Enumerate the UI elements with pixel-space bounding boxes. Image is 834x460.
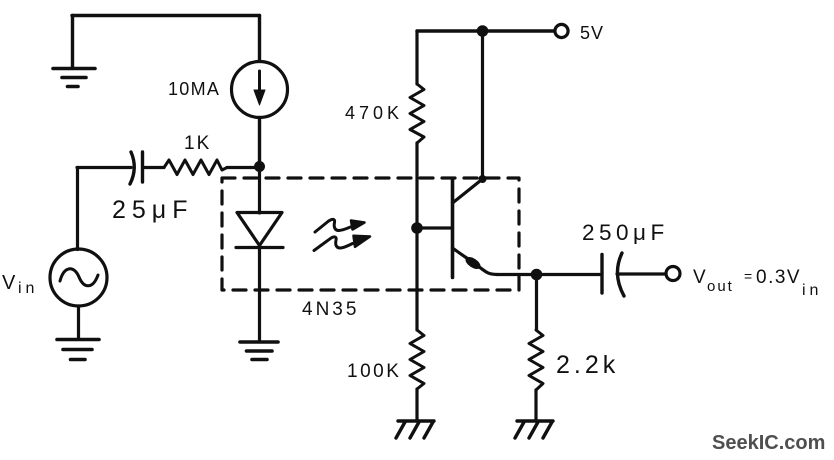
node junction (1K / LED / current source) (254, 161, 265, 172)
wire capacitor to Vin branch (77, 166, 131, 169)
light arrow 1 (315, 219, 365, 232)
dashed box 4N35 (222, 178, 519, 290)
svg-text:0.3V: 0.3V (756, 267, 801, 288)
svg-text:SeekIC.com: SeekIC.com (712, 432, 825, 454)
resistor 2.2k (vertical zigzag) (529, 330, 543, 390)
resistor 1K (horizontal zigzag) (164, 160, 227, 175)
ground (100K, hatched) (396, 421, 434, 438)
wire node to capacitor 250uF (537, 273, 601, 276)
wire 100K to ground (415, 389, 418, 420)
svg-text:100K: 100K (347, 361, 401, 382)
source Vin (sine) (50, 249, 107, 306)
wire from top into current source (258, 16, 261, 62)
terminal Vout (666, 267, 680, 281)
wire current source to node (258, 118, 261, 167)
ground (Vin) (57, 340, 99, 360)
wire 2.2k to ground (534, 390, 537, 420)
wire node to 2.2k (535, 275, 538, 331)
wire 1K to node (227, 166, 260, 169)
junction blob (collector meets box edge) (479, 175, 487, 183)
svg-text:250μF: 250μF (582, 220, 669, 245)
node junction (5V / collector) (477, 25, 489, 37)
wire capacitor to resistor 1K (144, 166, 165, 169)
label Vout = 0.3Vin (693, 267, 822, 299)
svg-text:4N35: 4N35 (302, 299, 359, 320)
svg-text:2.2k: 2.2k (556, 351, 619, 379)
light arrow 2 (314, 236, 370, 251)
svg-text:=: = (744, 268, 752, 284)
wire top-left horizontal (ground to current source) (72, 14, 260, 17)
resistor 100K (vertical zigzag) (410, 330, 424, 389)
terminal 5V (555, 24, 568, 37)
LED (diode of 4N35) (236, 213, 283, 248)
transistor (4N35 phototransistor) (453, 179, 498, 278)
svg-text:5V: 5V (580, 23, 604, 43)
node junction (emitter / 2.2k / 250uF) (531, 269, 543, 281)
svg-text:out: out (707, 278, 734, 295)
svg-text:1K: 1K (184, 133, 211, 154)
svg-text:V: V (693, 267, 706, 288)
capacitor 25uF (130, 152, 143, 184)
wire Vin bottom lead (77, 306, 80, 339)
wire capacitor to Vout terminal (617, 272, 666, 275)
node junction (base divider) (411, 222, 423, 234)
capacitor 250uF (602, 253, 624, 296)
svg-text:470K: 470K (345, 103, 403, 123)
wire 5V rail (417, 29, 555, 32)
svg-text:25μF: 25μF (112, 196, 193, 224)
wire collector to 5V node (481, 31, 484, 179)
resistor 470K (vertical zigzag) (410, 84, 424, 143)
wire Vin top lead (76, 168, 79, 250)
wire emitter to output node (497, 273, 537, 276)
ground (2.2k, hatched) (515, 421, 553, 438)
wire node to LED anode (258, 167, 261, 214)
wire 5V rail to 470K (415, 31, 418, 84)
ground (LED cathode) (240, 342, 278, 360)
wire top-left vertical drop to ground (71, 16, 74, 68)
wire LED cathode to ground (258, 248, 261, 342)
svg-text:in: in (802, 282, 822, 299)
ground (top left) (53, 69, 95, 87)
svg-text:in: in (18, 280, 38, 297)
current source 10MA (232, 62, 288, 118)
wire base (417, 226, 453, 229)
svg-text:10MA: 10MA (168, 79, 220, 99)
wire 470K to 100K (through box, base node) (415, 143, 418, 330)
svg-text:V: V (2, 272, 16, 294)
